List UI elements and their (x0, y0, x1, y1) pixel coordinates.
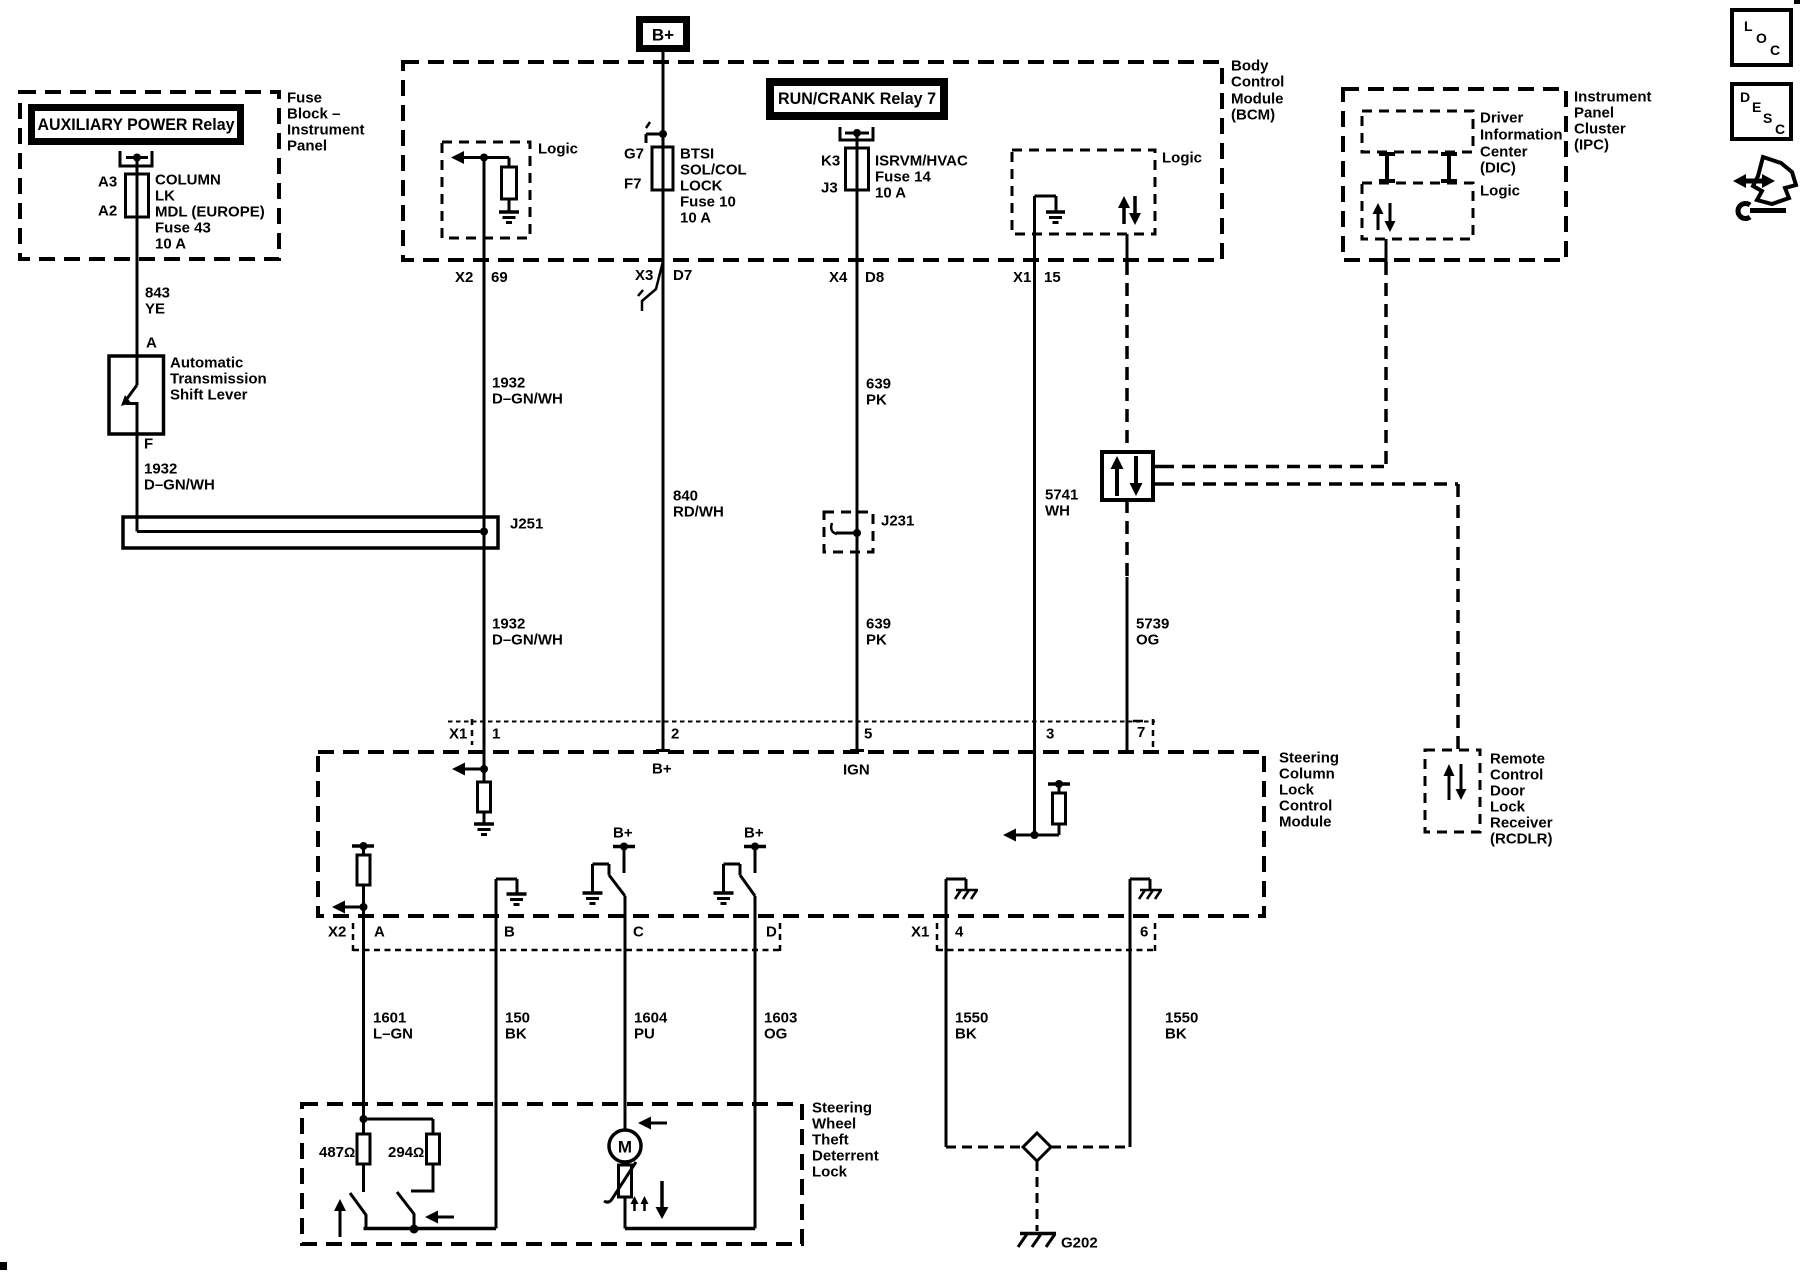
svg-text:RD/WH: RD/WH (673, 504, 724, 521)
svg-text:D7: D7 (673, 267, 692, 284)
svg-text:B: B (504, 924, 515, 941)
pin B internal ground (496, 879, 527, 905)
svg-text:Wheel: Wheel (812, 1116, 856, 1133)
svg-text:LK: LK (155, 188, 175, 205)
serial data arrows in RCDLR box (1444, 764, 1467, 800)
connector label X4 D8 (829, 269, 884, 286)
ground G202 (1018, 1234, 1056, 1248)
resistor 487 ohm (357, 1134, 370, 1164)
svg-text:G7: G7 (624, 146, 644, 163)
wire 1604 PU pin C to motor (624, 896, 627, 1131)
relay contact bracket (run/crank relay output) (839, 127, 875, 140)
pin A termination and resistor inside SCLCM (352, 842, 374, 885)
fuse block label (287, 90, 365, 155)
legend wrench icon (1738, 204, 1786, 219)
splice diamond to G202 (946, 1133, 1130, 1231)
SCLCM steering column lock control module dashed box (318, 752, 1264, 916)
J251 bus bar (137, 517, 488, 536)
svg-text:A2: A2 (98, 203, 117, 220)
svg-text:1550: 1550 (955, 1010, 988, 1027)
svg-text:PK: PK (866, 392, 887, 409)
svg-text:A3: A3 (98, 174, 117, 191)
wire 1932 D-GN/WH from BCM X2-69 to SCLCM X1-1 (483, 158, 486, 770)
svg-text:J3: J3 (821, 180, 838, 197)
wire F to J251 (136, 434, 139, 532)
svg-text:639: 639 (866, 616, 891, 633)
wire 1932 D-GN/WH label (left) (144, 461, 215, 494)
svg-text:Control: Control (1490, 767, 1543, 784)
fuse block instrument panel dashed box (20, 92, 279, 259)
svg-text:Transmission: Transmission (170, 371, 267, 388)
wire 150 BK label (505, 1010, 530, 1043)
svg-text:639: 639 (866, 376, 891, 393)
fuse 43 COLUMN LK MDL box (126, 174, 149, 217)
body control module BCM dashed box (403, 62, 1222, 260)
pull-up resistor in left logic box (502, 167, 517, 199)
svg-text:1932: 1932 (492, 616, 525, 633)
svg-text:SOL/COL: SOL/COL (680, 162, 747, 179)
svg-text:OG: OG (764, 1026, 787, 1043)
svg-text:5739: 5739 (1136, 616, 1169, 633)
B+ stub at pin C (613, 843, 635, 874)
svg-text:X1: X1 (449, 726, 467, 743)
serial data arrows in right logic box (1118, 196, 1141, 225)
svg-text:X1: X1 (1013, 269, 1031, 286)
svg-text:F7: F7 (624, 176, 642, 193)
svg-text:Steering: Steering (1279, 750, 1339, 767)
pin C switch to ground and B+ (583, 864, 626, 904)
pin D switch to ground and B+ (714, 864, 756, 904)
svg-text:10 A: 10 A (875, 185, 906, 202)
B+ stub at pin D (744, 843, 766, 874)
svg-text:Instrument: Instrument (287, 122, 365, 139)
BCM label (1231, 58, 1284, 124)
svg-text:(IPC): (IPC) (1574, 137, 1609, 154)
svg-text:294Ω: 294Ω (388, 1144, 424, 1161)
automatic transmission shift lever box (109, 356, 164, 434)
dashed serial wire to RCDLR (1161, 484, 1458, 750)
svg-text:M: M (618, 1138, 632, 1157)
svg-text:BK: BK (505, 1026, 527, 1043)
wire 639 PK label (upper) (866, 376, 891, 409)
DIC to logic link bar right (1441, 153, 1457, 182)
svg-text:Receiver: Receiver (1490, 815, 1553, 832)
svg-text:843: 843 (145, 285, 170, 302)
svg-text:Center: Center (1480, 144, 1528, 161)
svg-text:K3: K3 (821, 153, 840, 170)
pin 3 pull-up resistor to B+ termination (1035, 780, 1071, 835)
svg-text:Information: Information (1480, 127, 1563, 144)
svg-text:OG: OG (1136, 632, 1159, 649)
svg-text:L: L (1744, 18, 1753, 34)
svg-text:2: 2 (671, 726, 679, 743)
wire 150 BK pin B to theft lock (495, 879, 498, 1229)
svg-text:RUN/CRANK Relay 7: RUN/CRANK Relay 7 (778, 89, 936, 108)
svg-text:Logic: Logic (538, 141, 578, 158)
wire 639 PK label (lower) (866, 616, 891, 649)
svg-text:Panel: Panel (1574, 105, 1614, 122)
svg-text:10 A: 10 A (155, 236, 186, 253)
dashed serial wire to IPC (1161, 262, 1386, 467)
svg-text:Fuse 10: Fuse 10 (680, 194, 736, 211)
SCLCM X1 lower connector dotted row (937, 923, 1155, 951)
wire 1550 BK label left (955, 1010, 988, 1043)
wire 1603 OG label (764, 1010, 797, 1043)
steering wheel theft deterrent lock dashed box (302, 1104, 802, 1244)
wire 840 RD/WH label (673, 488, 724, 521)
splice pack J251 box (123, 517, 498, 548)
svg-text:487Ω: 487Ω (319, 1144, 355, 1161)
serial data junction box (1102, 452, 1161, 500)
svg-text:D8: D8 (865, 269, 884, 286)
logic output arrow (driver) (451, 151, 509, 167)
svg-text:F: F (144, 436, 153, 453)
svg-text:YE: YE (145, 301, 165, 318)
IPC label (1574, 89, 1652, 154)
wire 1550 BK pin 6 (1129, 879, 1132, 1147)
svg-text:G202: G202 (1061, 1235, 1098, 1252)
wire 5741 WH label (1045, 487, 1078, 520)
switch common bottom wire (364, 1227, 497, 1231)
svg-text:Cluster: Cluster (1574, 121, 1626, 138)
svg-text:BTSI: BTSI (680, 146, 714, 163)
svg-text:D–GN/WH: D–GN/WH (492, 632, 563, 649)
SCLCM X2 connector dotted row (353, 923, 780, 951)
wire 5739 OG label (1136, 616, 1169, 649)
unlock position left arrow (425, 1211, 454, 1224)
fuse 14 value label (875, 153, 968, 202)
svg-text:J231: J231 (881, 513, 914, 530)
connector label X1 15 (1013, 269, 1061, 286)
svg-text:Module: Module (1279, 814, 1332, 831)
corner artifact bottom-left (0, 1262, 7, 1270)
wire 1601 L-GN pin A to theft lock (362, 885, 365, 1134)
pigtail hook at X3 D7 (638, 261, 663, 311)
svg-text:Fuse: Fuse (287, 90, 322, 107)
current hook at fuse 10 top (646, 122, 667, 143)
wire 1550 BK pin 4 (945, 879, 948, 1147)
connector pin labels X1 row (449, 724, 1145, 743)
thermal small up arrows (631, 1196, 649, 1211)
shift lever label (170, 355, 267, 404)
lock motor M (609, 1130, 641, 1162)
wire 487 ohm to switch contact (362, 1164, 365, 1192)
svg-text:69: 69 (491, 269, 508, 286)
svg-text:B+: B+ (652, 761, 672, 778)
svg-text:1932: 1932 (144, 461, 177, 478)
svg-text:5741: 5741 (1045, 487, 1078, 504)
svg-text:Column: Column (1279, 766, 1335, 783)
svg-text:Fuse 43: Fuse 43 (155, 220, 211, 237)
svg-text:BK: BK (1165, 1026, 1187, 1043)
fuse 43 value label (155, 172, 265, 253)
svg-text:ISRVM/HVAC: ISRVM/HVAC (875, 153, 968, 170)
svg-text:Module: Module (1231, 91, 1284, 108)
svg-text:A: A (374, 924, 385, 941)
svg-text:Instrument: Instrument (1574, 89, 1652, 106)
fuse 10 BTSI box (652, 147, 673, 190)
svg-text:Automatic: Automatic (170, 355, 243, 372)
svg-text:Door: Door (1490, 783, 1525, 800)
svg-text:1603: 1603 (764, 1010, 797, 1027)
svg-text:6: 6 (1140, 924, 1148, 941)
svg-text:BK: BK (955, 1026, 977, 1043)
pin 2 terminal bar (656, 749, 670, 752)
svg-text:PU: PU (634, 1026, 655, 1043)
instrument panel cluster IPC dashed box (1343, 89, 1566, 260)
svg-text:LOCK: LOCK (680, 178, 723, 195)
wire run/crank relay to SCLCM pin 5 (856, 133, 859, 752)
wire 294 ohm to switch contact (411, 1164, 433, 1191)
svg-text:Lock: Lock (812, 1164, 848, 1181)
ground under pin 1 resistor (474, 824, 494, 835)
svg-text:Driver: Driver (1480, 110, 1524, 127)
IPC serial wire stub (1385, 239, 1388, 262)
svg-text:(DIC): (DIC) (1480, 160, 1516, 177)
svg-text:Logic: Logic (1162, 150, 1202, 167)
svg-text:Theft: Theft (812, 1132, 849, 1149)
svg-text:150: 150 (505, 1010, 530, 1027)
BCM left logic dashed box (442, 142, 530, 238)
motor drive arrow (638, 1117, 667, 1130)
DIC label (1480, 110, 1563, 177)
svg-text:E: E (1752, 99, 1761, 115)
svg-text:D–GN/WH: D–GN/WH (492, 391, 563, 408)
svg-text:1604: 1604 (634, 1010, 668, 1027)
svg-text:X2: X2 (328, 924, 346, 941)
svg-text:C: C (1770, 42, 1780, 58)
svg-text:Shift Lever: Shift Lever (170, 387, 248, 404)
unlock position switch blade (397, 1192, 419, 1234)
corner artifact top-right (1794, 0, 1800, 4)
splice J231 dashed box (824, 512, 873, 552)
wire 1603 OG pin D to theft lock (754, 896, 757, 1229)
svg-text:MDL (EUROPE): MDL (EUROPE) (155, 204, 265, 221)
svg-text:S: S (1763, 110, 1772, 126)
SCLCM X1 connector dotted row (448, 719, 1155, 747)
shift lever switch symbol (121, 356, 137, 434)
relay contact bracket (aux power relay output) (119, 151, 154, 166)
motor thermal protector (604, 1162, 636, 1202)
svg-text:J251: J251 (510, 516, 543, 533)
wire 1604 PU label (634, 1010, 668, 1043)
motor return down arrow (656, 1181, 669, 1219)
svg-text:(RCDLR): (RCDLR) (1490, 831, 1552, 848)
wire 5741 WH from BCM X1-15 to SCLCM pin 3 (1033, 196, 1036, 835)
pin 5 terminal bar (850, 749, 864, 752)
svg-text:Deterrent: Deterrent (812, 1148, 879, 1165)
node junction at top of resistors (360, 1115, 434, 1134)
svg-text:COLUMN: COLUMN (155, 172, 221, 189)
svg-text:X1: X1 (911, 924, 929, 941)
ground in right logic box (1035, 196, 1066, 223)
wire B+ to BTSI fuse to SCLCM pin 2 (662, 52, 665, 752)
wire 5739 OG (dashed then solid to pin 7) (1125, 500, 1129, 752)
svg-text:1: 1 (492, 726, 500, 743)
RCDLR label (1490, 751, 1553, 848)
BCM right logic dashed box (1012, 150, 1155, 234)
svg-text:IGN: IGN (843, 762, 870, 779)
wire 1601 L-GN label (373, 1010, 413, 1043)
DIC to logic link bar left (1379, 153, 1395, 182)
serial data arrows in IPC logic box (1373, 203, 1396, 232)
svg-text:B+: B+ (613, 825, 633, 842)
svg-text:X4: X4 (829, 269, 848, 286)
theft deterrent lock label (812, 1100, 879, 1181)
IPC logic dashed box (1362, 183, 1473, 239)
svg-text:(BCM): (BCM) (1231, 107, 1275, 124)
svg-text:Fuse 14: Fuse 14 (875, 169, 932, 186)
J231 hook symbol (831, 523, 861, 537)
wire 843 YE label (145, 285, 170, 318)
svg-text:PK: PK (866, 632, 887, 649)
svg-text:5: 5 (864, 726, 872, 743)
svg-text:3: 3 (1046, 726, 1054, 743)
svg-text:Block –: Block – (287, 106, 340, 123)
svg-text:7: 7 (1137, 724, 1145, 741)
svg-text:B+: B+ (744, 825, 764, 842)
svg-text:10 A: 10 A (680, 210, 711, 227)
svg-text:O: O (1756, 30, 1767, 46)
wire A3/A2 through fuse 43 (136, 158, 139, 357)
svg-text:Control: Control (1231, 74, 1284, 91)
svg-text:4: 4 (955, 924, 964, 941)
DESC legend box (1732, 84, 1791, 139)
fuse 14 ISRVM/HVAC box (846, 148, 869, 190)
svg-text:D: D (1740, 89, 1750, 105)
pin A output arrow and dot (332, 901, 368, 914)
RCDLR dashed box (1425, 750, 1480, 832)
svg-text:1932: 1932 (492, 375, 525, 392)
svg-text:Logic: Logic (1480, 183, 1520, 200)
connector pin labels bottom row (328, 924, 1148, 941)
svg-text:1550: 1550 (1165, 1010, 1198, 1027)
svg-text:D–GN/WH: D–GN/WH (144, 477, 215, 494)
pin 1 input arrow and dot (452, 763, 488, 776)
ground in left logic box (499, 199, 519, 223)
lock position switch blade (350, 1193, 366, 1230)
motor bottom wire (625, 1197, 755, 1229)
svg-text:Steering: Steering (812, 1100, 872, 1117)
svg-text:Body: Body (1231, 58, 1269, 75)
svg-text:15: 15 (1044, 269, 1061, 286)
LOC legend box (1732, 10, 1791, 65)
legend boot outline icon (1753, 157, 1796, 204)
wire 1550 BK label right (1165, 1010, 1198, 1043)
svg-text:AUXILIARY POWER Relay: AUXILIARY POWER Relay (38, 115, 236, 134)
connector label X2 69 (455, 269, 508, 286)
svg-text:X3: X3 (635, 267, 653, 284)
svg-text:Remote: Remote (1490, 751, 1545, 768)
pin 1 pull resistor (478, 769, 491, 823)
fuse 10 value label (680, 146, 747, 227)
wire 1932 D-GN/WH label (lower) (492, 616, 563, 649)
svg-text:Lock: Lock (1490, 799, 1526, 816)
serial data link wire from logic box (solid then dashed) (1126, 234, 1129, 452)
pin 3 input arrow and dot (1003, 829, 1039, 842)
svg-text:840: 840 (673, 488, 698, 505)
pin 4 internal chassis ground (946, 879, 978, 899)
lock position up arrow (334, 1199, 346, 1237)
connector label X3 D7 (635, 267, 692, 284)
svg-text:D: D (766, 924, 777, 941)
svg-text:L–GN: L–GN (373, 1026, 413, 1043)
driver information center DIC dashed box (1362, 111, 1473, 152)
svg-text:WH: WH (1045, 503, 1070, 520)
svg-text:Panel: Panel (287, 138, 327, 155)
svg-text:Lock: Lock (1279, 782, 1315, 799)
resistor 294 ohm (427, 1134, 440, 1164)
svg-text:1601: 1601 (373, 1010, 406, 1027)
svg-text:B+: B+ (652, 26, 674, 45)
svg-text:X2: X2 (455, 269, 473, 286)
legend double arrow icon (1733, 174, 1775, 188)
wire 1932 D-GN/WH label (mid) (492, 375, 563, 408)
svg-text:C: C (1775, 121, 1785, 137)
RUN/CRANK Relay 7 box (770, 82, 944, 116)
pin 6 internal chassis ground (1130, 879, 1162, 899)
svg-text:C: C (633, 924, 644, 941)
SCLCM label (1279, 750, 1339, 831)
svg-text:Control: Control (1279, 798, 1332, 815)
AUXILIARY POWER Relay box (32, 108, 241, 142)
svg-text:A: A (146, 335, 157, 352)
B+ power box (640, 20, 687, 49)
